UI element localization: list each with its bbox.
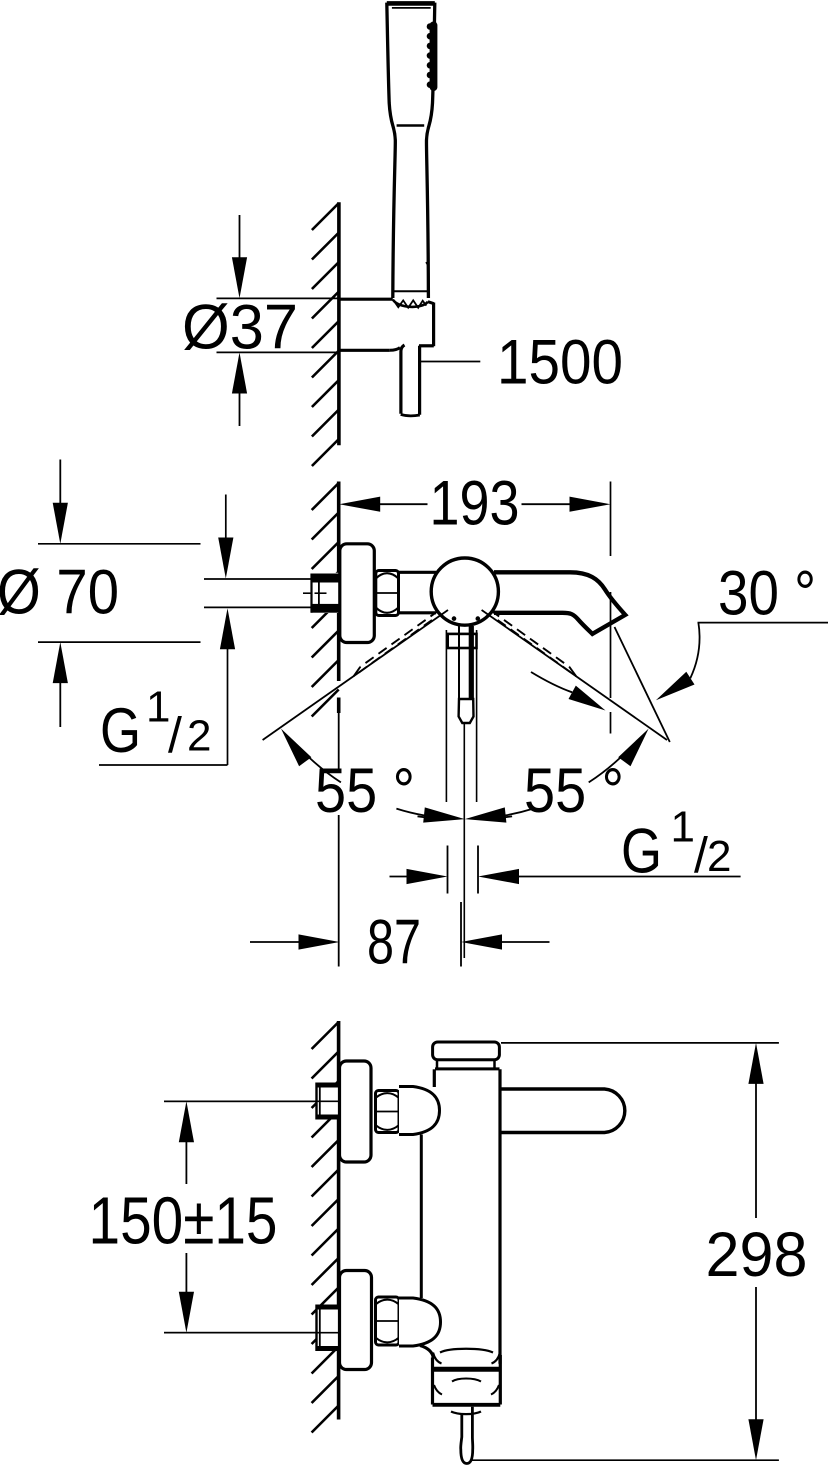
svg-text:298: 298 — [706, 1220, 808, 1290]
svg-text:Ø 70: Ø 70 — [0, 557, 119, 627]
svg-text:55 °: 55 ° — [315, 756, 415, 826]
svg-text:150±15: 150±15 — [89, 1184, 278, 1259]
svg-text:2: 2 — [707, 832, 731, 881]
svg-text:2: 2 — [187, 712, 211, 761]
svg-text:1: 1 — [671, 803, 695, 852]
svg-text:/: / — [694, 828, 708, 884]
svg-text:30 °: 30 ° — [718, 558, 816, 628]
svg-text:G: G — [621, 817, 662, 887]
svg-text:/: / — [168, 707, 182, 763]
svg-text:Ø37: Ø37 — [182, 293, 298, 363]
svg-text:1500: 1500 — [497, 328, 623, 398]
svg-text:193: 193 — [430, 469, 520, 539]
svg-text:G: G — [100, 696, 141, 766]
svg-text:55 °: 55 ° — [524, 756, 624, 826]
svg-text:1: 1 — [146, 683, 170, 732]
svg-text:87: 87 — [367, 908, 421, 978]
